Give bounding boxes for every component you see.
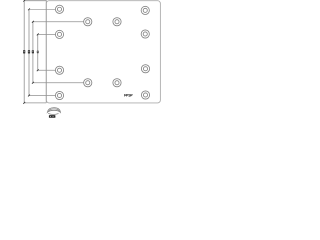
hole H2 outer bbox=[141, 6, 149, 14]
hole H1 inner bbox=[57, 7, 61, 11]
hole H3 outer bbox=[84, 18, 92, 26]
hole H9 outer bbox=[84, 79, 92, 87]
leader inner row bottom to hole H9 bbox=[33, 82, 84, 84]
tick D1 bottom bbox=[23, 102, 25, 104]
lining outline (flat development view, rounded rect) bbox=[46, 1, 160, 103]
tick D2 top bbox=[28, 8, 30, 10]
top edge extension line to dimension D1 bbox=[24, 0, 46, 2]
tick D2 bottom bbox=[28, 95, 30, 97]
section view outer crescent bbox=[47, 108, 60, 113]
hole H2 inner bbox=[143, 8, 147, 12]
dim text D1 bbox=[23, 50, 25, 53]
hole H11 outer bbox=[55, 91, 63, 99]
hole H5 outer bbox=[55, 30, 63, 38]
section view thickness text bbox=[49, 115, 56, 118]
dimension line D2 (row1-row4 outer) bbox=[28, 9, 30, 95]
hole H7 outer bbox=[55, 66, 63, 74]
hole H10 inner bbox=[115, 81, 119, 85]
hole H9 inner bbox=[86, 81, 90, 85]
tick D3 bottom bbox=[32, 82, 34, 84]
hole H8 inner bbox=[143, 67, 147, 71]
dim text D4 bbox=[37, 51, 39, 54]
leader row1 to hole H1 bbox=[29, 8, 56, 10]
hole H10 outer bbox=[113, 79, 121, 87]
hole H4 inner bbox=[115, 20, 119, 24]
hole H6 outer bbox=[141, 30, 149, 38]
extension overshoot of left edge above top bbox=[45, 0, 47, 2]
svg-text:FPSP: FPSP bbox=[124, 93, 133, 97]
left edge emphasize (extension line overlapping outline) bbox=[45, 1, 47, 103]
tick D4 top bbox=[37, 33, 39, 35]
section view inner arc bbox=[49, 109, 60, 111]
hole H1 outer bbox=[55, 5, 63, 13]
leader row2 to hole H5 bbox=[38, 33, 56, 35]
dimension line D3 (inner rows) bbox=[32, 22, 34, 83]
hole H3 inner bbox=[86, 20, 90, 24]
dimension line D1 (overall height) bbox=[23, 1, 25, 103]
dim text D3 bbox=[32, 50, 34, 53]
hole H12 inner bbox=[143, 93, 147, 97]
section view lower smile arc bbox=[48, 113, 58, 114]
leader row4 to hole H11 bbox=[29, 95, 56, 97]
leader inner row top to hole H3 bbox=[33, 21, 84, 23]
leader row3 to hole H7 bbox=[38, 69, 56, 71]
tick D1 top bbox=[23, 0, 25, 2]
hole H11 inner bbox=[57, 93, 61, 97]
tick D3 top bbox=[32, 21, 34, 23]
dimension line D4 (middle outer rows) bbox=[37, 34, 39, 70]
hole H12 outer bbox=[141, 91, 149, 99]
hole H8 outer bbox=[141, 65, 149, 73]
hole H6 inner bbox=[143, 32, 147, 36]
hole H7 inner bbox=[57, 68, 61, 72]
tick D4 bottom bbox=[37, 69, 39, 71]
dim text D2 bbox=[28, 50, 30, 53]
hole H4 outer bbox=[113, 18, 121, 26]
bottom edge extension line to dimension D1 bbox=[24, 102, 46, 104]
hole H5 inner bbox=[57, 32, 61, 36]
